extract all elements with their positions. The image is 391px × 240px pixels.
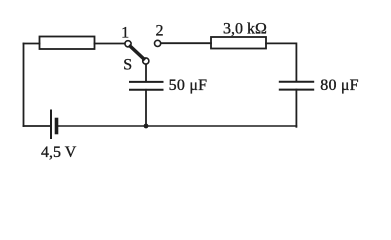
wire bottom middle (battery to junction) bbox=[59, 125, 147, 127]
svg-text:4,5 V: 4,5 V bbox=[41, 144, 77, 161]
svg-text:2: 2 bbox=[156, 23, 164, 40]
wire pivot down to 50uF bbox=[145, 64, 147, 81]
wire bottom left (to battery) bbox=[24, 125, 51, 127]
wire top-left stub bbox=[24, 43, 40, 45]
resistor (left, unlabeled) bbox=[40, 37, 95, 50]
node junction (bottom middle) bbox=[144, 124, 149, 129]
wire bottom right (junction to right corner) bbox=[146, 125, 296, 127]
wire 80uF to bottom bbox=[295, 90, 297, 127]
svg-text:1: 1 bbox=[121, 24, 129, 41]
svg-text:3,0 kΩ: 3,0 kΩ bbox=[223, 21, 267, 38]
wire left vertical bbox=[23, 44, 25, 127]
svg-text:50 μF: 50 μF bbox=[169, 77, 208, 94]
resistor 3,0 kOhm bbox=[211, 37, 266, 49]
switch lever bbox=[130, 46, 143, 59]
switch terminal 1 (contact circle) bbox=[125, 41, 131, 47]
battery 4,5 V bbox=[51, 111, 57, 139]
switch terminal 2 (contact circle) bbox=[155, 40, 161, 46]
switch S bbox=[125, 41, 149, 64]
wire resistor to right corner bbox=[266, 43, 296, 81]
svg-text:S: S bbox=[123, 57, 132, 74]
switch pivot (contact circle) bbox=[143, 58, 149, 64]
capacitor 80 uF bbox=[280, 82, 313, 90]
capacitor 50 uF bbox=[130, 82, 163, 90]
wire 50uF to bottom junction bbox=[145, 90, 147, 126]
svg-text:80 μF: 80 μF bbox=[320, 77, 358, 94]
wire resistor to switch terminal 1 bbox=[95, 43, 125, 45]
wire terminal 2 to resistor 3,0 k bbox=[161, 42, 211, 44]
